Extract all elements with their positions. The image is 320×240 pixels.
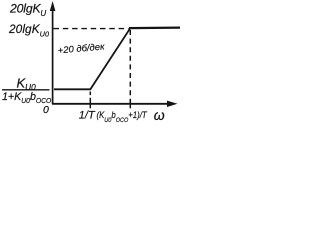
dashed vertical at 1/T (89, 92, 91, 103)
top gain plateau line (129, 27, 180, 30)
low-frequency level line (54, 88, 91, 90)
svg-text:+20 дб/дек: +20 дб/дек (57, 42, 105, 56)
axis tick at corner frequency (129, 101, 131, 109)
x-axis (52, 103, 169, 105)
svg-text:1/T: 1/T (79, 110, 96, 122)
axis tick at 1/T (89, 101, 91, 109)
dashed level 20lgKu0 (54, 28, 129, 30)
y-axis arrowhead (50, 1, 56, 11)
svg-text:0: 0 (43, 104, 49, 116)
+20dB/dec slope line (90, 28, 130, 90)
svg-text:20lgKU: 20lgKU (9, 2, 46, 18)
svg-text:ω: ω (154, 107, 165, 123)
y-axis (52, 9, 54, 104)
svg-text:20lgKU0: 20lgKU0 (8, 22, 49, 39)
fraction bar (2, 89, 50, 91)
svg-text:(KU0bOCO+1)/T: (KU0bOCO+1)/T (97, 109, 148, 124)
x-axis arrowhead (167, 101, 178, 107)
dashed vertical at corner frequency (129, 30, 131, 102)
